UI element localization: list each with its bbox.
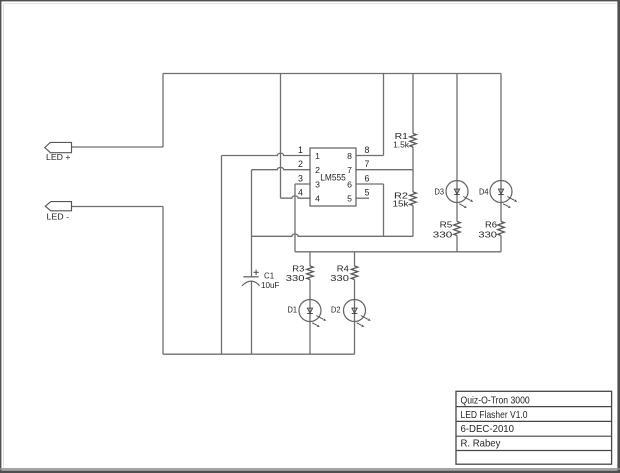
svg-text:5: 5 <box>347 194 352 204</box>
svg-text:3: 3 <box>315 179 320 189</box>
svg-text:4: 4 <box>315 194 320 204</box>
svg-text:6-DEC-2010: 6-DEC-2010 <box>461 424 515 435</box>
svg-text:R. Rabey: R. Rabey <box>461 439 502 450</box>
svg-text:2: 2 <box>315 165 320 175</box>
svg-text:D3: D3 <box>435 187 445 197</box>
svg-text:Quiz-O-Tron 3000: Quiz-O-Tron 3000 <box>461 396 530 407</box>
svg-text:330: 330 <box>478 230 497 240</box>
svg-text:LM555: LM555 <box>320 172 346 182</box>
svg-text:LED -: LED - <box>47 212 70 221</box>
svg-text:330: 330 <box>286 273 305 283</box>
svg-text:1: 1 <box>298 145 303 155</box>
svg-text:D2: D2 <box>331 304 341 314</box>
svg-text:8: 8 <box>365 145 370 155</box>
svg-text:330: 330 <box>433 230 453 240</box>
svg-text:LED Flasher V1.0: LED Flasher V1.0 <box>461 410 528 421</box>
svg-text:330: 330 <box>330 273 349 283</box>
svg-text:8: 8 <box>347 151 352 161</box>
svg-text:R6: R6 <box>485 220 497 230</box>
svg-text:15k: 15k <box>393 198 410 208</box>
svg-text:LED +: LED + <box>46 153 71 162</box>
svg-text:7: 7 <box>347 165 352 175</box>
svg-text:4: 4 <box>298 188 303 198</box>
svg-text:6: 6 <box>347 179 352 189</box>
svg-text:1: 1 <box>315 151 320 161</box>
svg-text:1.5k: 1.5k <box>393 140 409 150</box>
svg-text:D1: D1 <box>288 304 298 314</box>
svg-text:6: 6 <box>365 173 370 183</box>
svg-text:3: 3 <box>298 173 303 183</box>
svg-text:2: 2 <box>298 159 303 169</box>
svg-text:R5: R5 <box>440 220 453 230</box>
svg-text:R3: R3 <box>292 264 304 274</box>
svg-text:5: 5 <box>365 188 370 198</box>
svg-text:D4: D4 <box>479 187 489 197</box>
svg-text:7: 7 <box>365 159 370 169</box>
svg-text:R4: R4 <box>337 264 349 274</box>
svg-text:10uF: 10uF <box>261 280 279 290</box>
